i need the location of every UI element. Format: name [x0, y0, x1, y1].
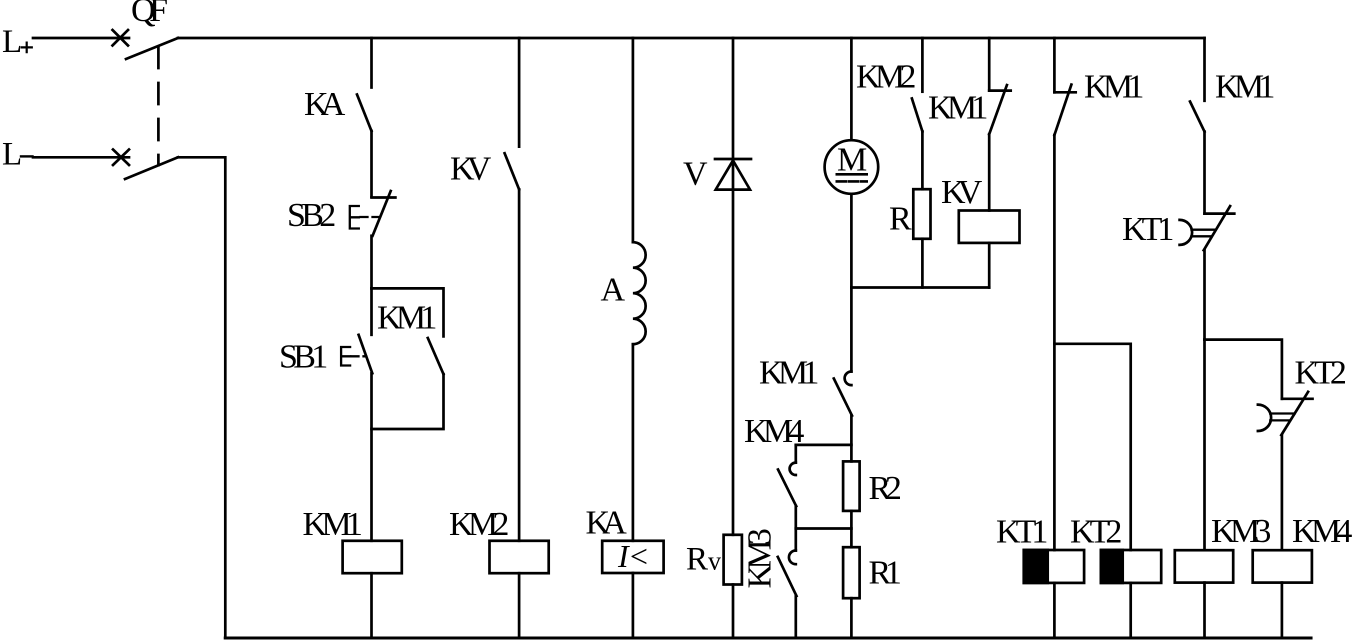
- svg-text:I<: I<: [617, 538, 650, 574]
- svg-text:KV: KV: [941, 174, 983, 211]
- svg-text:L: L: [2, 137, 22, 173]
- svg-text:QF: QF: [131, 0, 168, 29]
- svg-text:KM1: KM1: [1215, 69, 1275, 106]
- svg-text:R2: R2: [869, 470, 902, 507]
- svg-text:KM2: KM2: [856, 59, 916, 96]
- svg-text:V: V: [683, 156, 708, 193]
- svg-text:KT1: KT1: [1122, 211, 1174, 248]
- svg-text:KA: KA: [586, 505, 628, 542]
- svg-text:KV: KV: [450, 151, 492, 188]
- svg-text:KM3: KM3: [742, 528, 779, 588]
- svg-text:KA: KA: [304, 86, 346, 123]
- svg-text:SB2: SB2: [287, 197, 336, 234]
- svg-text:KT1: KT1: [996, 514, 1048, 551]
- svg-text:A: A: [601, 272, 626, 309]
- svg-text:SB1: SB1: [279, 339, 328, 376]
- svg-text:Rv: Rv: [686, 542, 721, 578]
- svg-text:R1: R1: [869, 555, 902, 592]
- svg-text:KM1: KM1: [303, 506, 363, 543]
- svg-text:KT2: KT2: [1070, 514, 1122, 551]
- svg-text:KM4: KM4: [744, 413, 804, 450]
- svg-text:KM1: KM1: [759, 355, 819, 392]
- svg-text:L: L: [2, 24, 22, 60]
- svg-text:KM2: KM2: [449, 506, 509, 543]
- svg-text:KT2: KT2: [1295, 355, 1347, 392]
- svg-text:KM1: KM1: [1084, 69, 1144, 106]
- svg-text:R: R: [889, 201, 912, 238]
- svg-text:M: M: [837, 142, 867, 179]
- svg-text:KM4: KM4: [1292, 513, 1352, 550]
- svg-text:KM1: KM1: [377, 300, 437, 337]
- svg-text:KM1: KM1: [928, 90, 988, 127]
- svg-text:KM3: KM3: [1211, 513, 1271, 550]
